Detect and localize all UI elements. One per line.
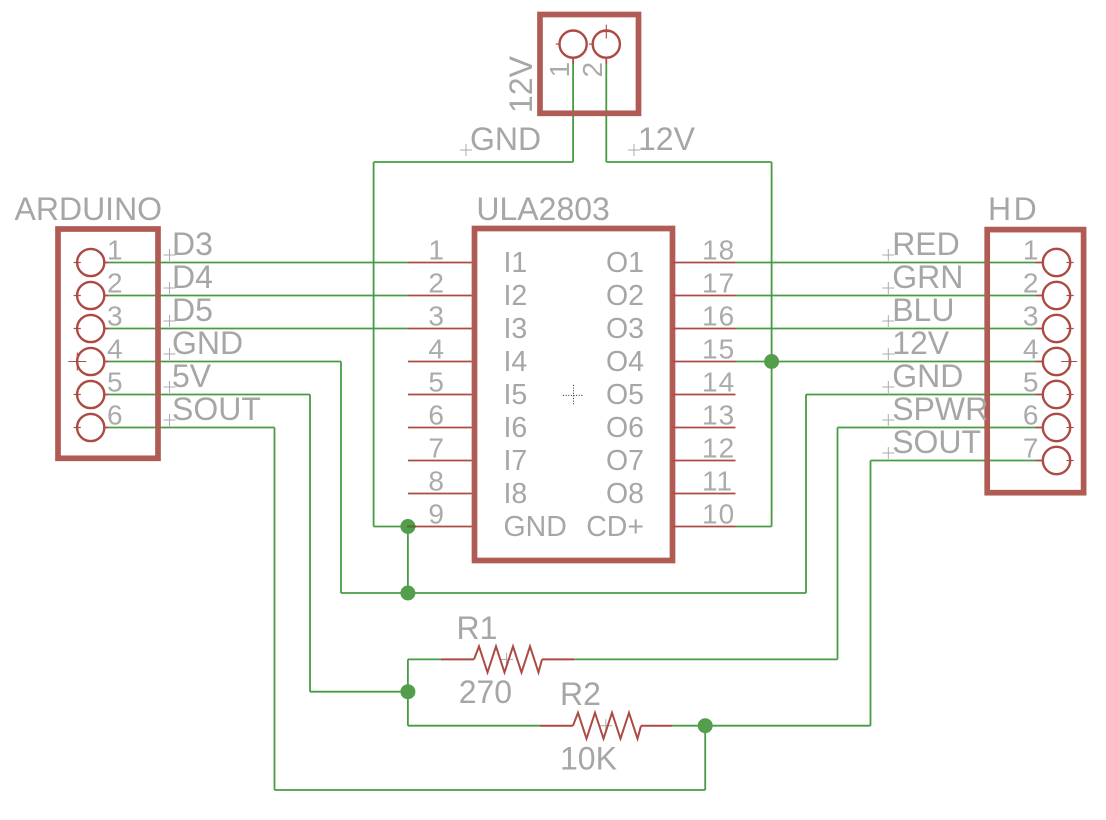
svg-text:4: 4 [107,334,123,365]
svg-text:O2: O2 [606,280,644,312]
svg-text:O5: O5 [606,379,644,411]
svg-text:7: 7 [428,433,444,464]
svg-text:2: 2 [428,268,444,299]
svg-text:ARDUINO: ARDUINO [15,191,163,227]
svg-text:9: 9 [428,499,444,530]
svg-text:5: 5 [107,367,123,398]
svg-text:13: 13 [702,400,735,431]
svg-text:SPWR: SPWR [892,391,988,427]
svg-text:8: 8 [428,466,444,497]
svg-text:12V: 12V [892,325,950,361]
svg-text:SOUT: SOUT [172,391,261,427]
svg-text:12V: 12V [503,55,539,113]
svg-text:6: 6 [107,400,123,431]
svg-text:14: 14 [702,367,735,398]
svg-text:R1: R1 [457,610,498,646]
svg-text:ULA2803: ULA2803 [476,191,609,227]
svg-text:GND: GND [172,325,243,361]
svg-text:6: 6 [428,400,444,431]
svg-text:10: 10 [702,499,735,530]
svg-text:1: 1 [428,235,444,266]
svg-text:11: 11 [702,466,733,497]
svg-text:270: 270 [459,674,512,710]
svg-text:1: 1 [107,235,123,266]
svg-text:3: 3 [428,301,444,332]
svg-text:I3: I3 [504,313,528,345]
svg-text:10K: 10K [560,741,617,777]
svg-text:O4: O4 [606,346,644,378]
svg-text:SOUT: SOUT [892,424,981,460]
svg-text:CD+: CD+ [586,511,644,543]
svg-text:RED: RED [892,226,960,262]
svg-text:3: 3 [107,301,123,332]
svg-text:O3: O3 [606,313,644,345]
svg-text:5V: 5V [172,358,212,394]
svg-text:R2: R2 [560,676,601,712]
svg-text:HD: HD [988,191,1039,227]
svg-text:2: 2 [577,62,608,78]
svg-text:2: 2 [1023,268,1039,299]
svg-text:17: 17 [702,268,735,299]
svg-text:O7: O7 [606,445,644,477]
svg-text:2: 2 [107,268,123,299]
svg-text:12V: 12V [638,121,696,157]
svg-text:5: 5 [1023,367,1039,398]
svg-text:6: 6 [1023,400,1039,431]
svg-text:I4: I4 [504,346,528,378]
svg-text:I8: I8 [504,478,528,510]
svg-text:BLU: BLU [892,292,954,328]
svg-text:D3: D3 [172,226,213,262]
svg-text:I2: I2 [504,280,528,312]
svg-text:O1: O1 [606,247,644,279]
svg-text:12: 12 [702,433,735,464]
svg-text:GND: GND [504,511,567,543]
svg-text:GND: GND [892,358,963,394]
svg-text:O8: O8 [606,478,644,510]
svg-text:I5: I5 [504,379,528,411]
svg-text:I7: I7 [504,445,528,477]
svg-text:4: 4 [428,334,444,365]
svg-text:7: 7 [1023,433,1039,464]
svg-text:GRN: GRN [892,259,963,295]
svg-text:18: 18 [702,235,735,266]
svg-text:5: 5 [428,367,444,398]
svg-text:3: 3 [1023,301,1039,332]
svg-text:I6: I6 [504,412,528,444]
svg-text:D4: D4 [172,259,213,295]
svg-text:I1: I1 [504,247,528,279]
svg-text:4: 4 [1023,334,1039,365]
svg-text:D5: D5 [172,292,213,328]
svg-text:1: 1 [544,62,575,78]
svg-text:1: 1 [1023,235,1039,266]
svg-text:15: 15 [702,334,735,365]
svg-text:O6: O6 [606,412,644,444]
svg-text:16: 16 [702,301,735,332]
svg-text:GND: GND [470,121,541,157]
